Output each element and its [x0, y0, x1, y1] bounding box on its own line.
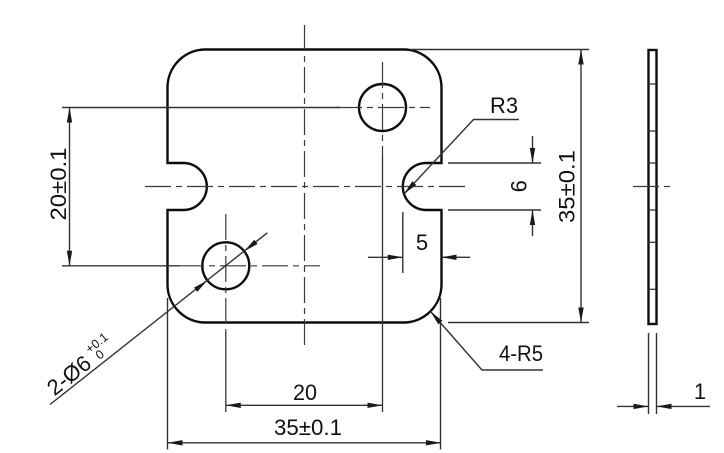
dimension 1: text — [694, 379, 706, 404]
dimension 6: extension lines — [448, 163, 541, 210]
svg-text:5: 5 — [416, 230, 428, 255]
dimension 20±0.1 left: extension lines — [62, 108, 340, 266]
svg-text:20±0.1: 20±0.1 — [46, 148, 71, 221]
dimension 35±0.1 bottom: extension lines — [168, 298, 441, 450]
side view feature lines — [649, 84, 657, 289]
centerline top hole horizontal — [336, 107, 430, 109]
dimension 35±0.1 bottom: text — [274, 415, 342, 440]
dimension 20±0.1 left: dim line with arrows — [67, 108, 72, 266]
plate outline (front view) — [168, 50, 442, 323]
leader 4-R5: line and arrow — [430, 311, 543, 370]
svg-text:20: 20 — [293, 380, 317, 405]
dimension 35±0.1 right: text — [555, 150, 580, 223]
leader R3: line and arrow — [404, 120, 519, 195]
dimension 6: text — [507, 180, 532, 192]
hole bottom (Ø6) — [202, 242, 249, 289]
leader 2-Ø6: text with tolerance — [40, 330, 119, 401]
hole top (Ø6) — [359, 84, 406, 131]
dimension 5: extension line — [402, 212, 404, 273]
centerline plate vertical — [304, 25, 306, 349]
centerline top hole vertical — [382, 62, 384, 412]
svg-text:1: 1 — [694, 379, 706, 404]
dimension 5: dim line with outside arrows — [368, 255, 470, 260]
centerline bottom hole vertical — [225, 214, 227, 412]
dimension 20 bottom: dim line with arrows — [226, 403, 383, 408]
dimension 1: dim line with outside arrows — [617, 404, 710, 409]
dimension 35±0.1 right: extension lines — [410, 50, 589, 323]
leader 2-Ø6: diagonal line through bottom hole — [50, 233, 267, 405]
side view plate section — [649, 50, 657, 324]
dimension 35±0.1 bottom: dim line with arrows — [168, 440, 442, 445]
svg-text:35±0.1: 35±0.1 — [555, 150, 580, 223]
dimension 20±0.1 left: text — [46, 148, 71, 221]
svg-text:35±0.1: 35±0.1 — [274, 415, 342, 440]
dimension 20 bottom: text — [293, 380, 317, 405]
leader R3: text — [490, 93, 518, 118]
dimension 5: text — [416, 230, 428, 255]
svg-text:4-R5: 4-R5 — [499, 341, 543, 366]
centerline plate horizontal — [145, 186, 465, 188]
dimension 6: dim line with outside arrows — [530, 136, 535, 236]
dimension 35±0.1 right: dim line with arrows — [578, 50, 583, 323]
svg-text:R3: R3 — [490, 93, 518, 118]
leader 4-R5: text — [499, 341, 543, 366]
side view centerline — [633, 186, 674, 188]
leader 2-Ø6: arrows at hole edge — [244, 240, 257, 252]
centerline bottom hole horizontal — [178, 265, 320, 267]
svg-text:6: 6 — [507, 180, 532, 192]
dimension 1: extension lines — [649, 333, 657, 414]
